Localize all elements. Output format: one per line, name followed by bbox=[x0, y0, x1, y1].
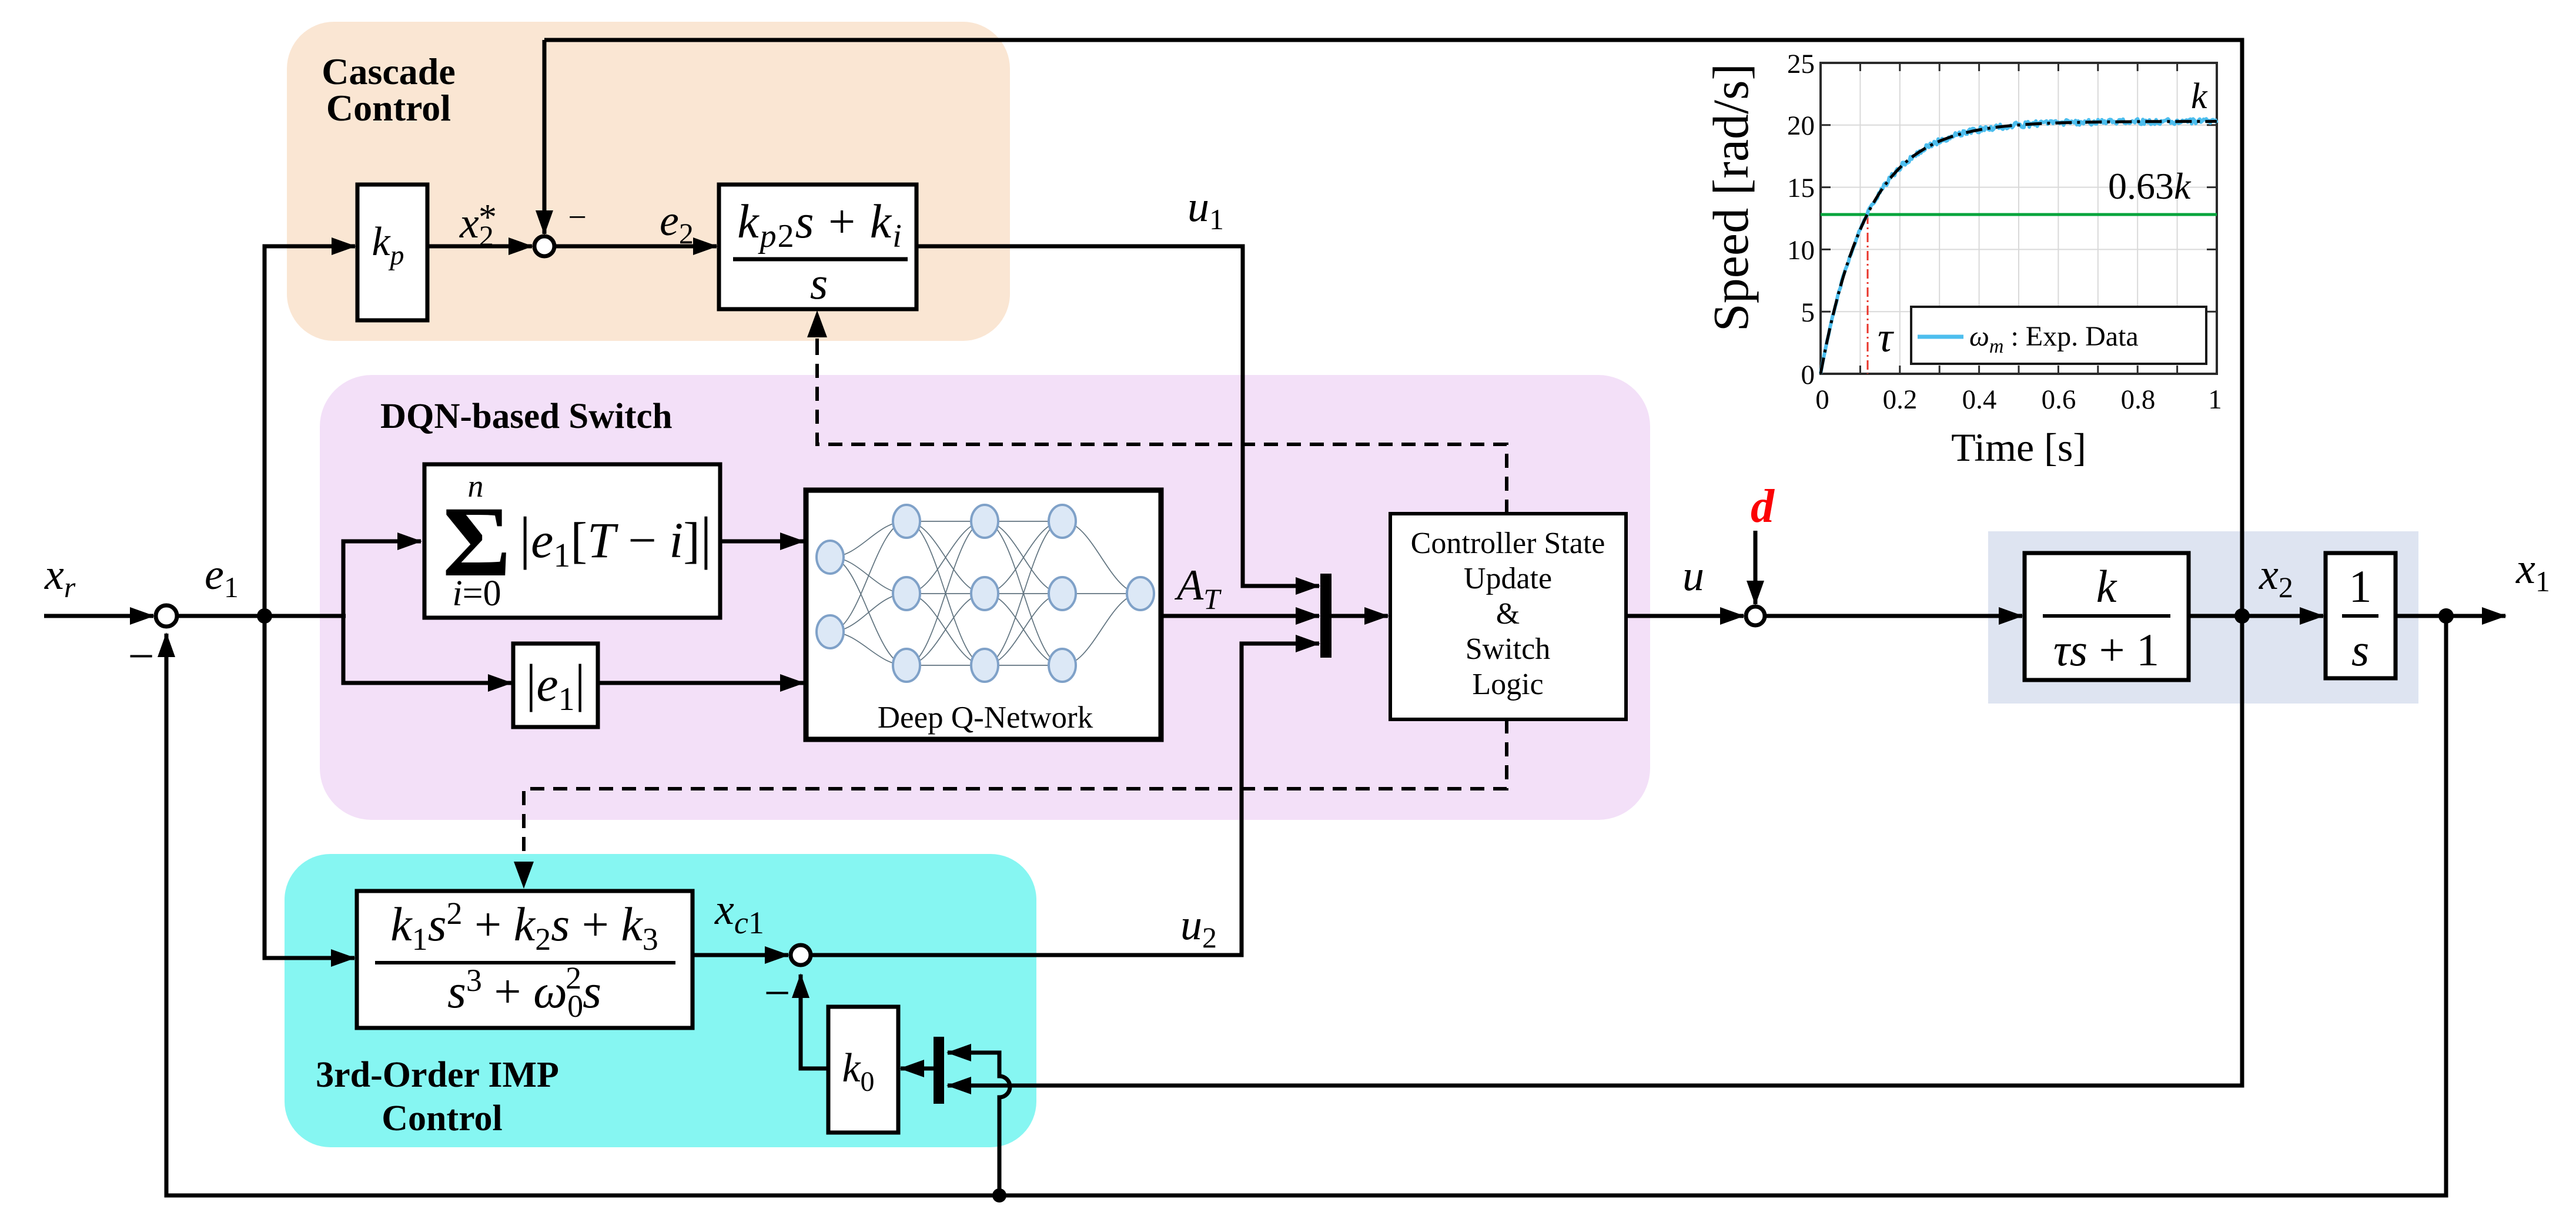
plot: frame bbox=[1821, 63, 2217, 374]
background region: Cascade Control bbox=[287, 22, 1010, 341]
wire: x1 feedback to main sum bbox=[166, 616, 2446, 1195]
svg-text:25: 25 bbox=[1787, 49, 1815, 79]
background region: 3rd-Order IMP Control bbox=[285, 854, 1036, 1147]
svg-text:k1s2 + k2s + k3: k1s2 + k2s + k3 bbox=[390, 896, 658, 957]
svg-text:Update: Update bbox=[1464, 562, 1552, 595]
svg-text:Speed [rad/s]: Speed [rad/s] bbox=[1702, 63, 1759, 331]
svg-text:|e1[T − i]|: |e1[T − i]| bbox=[519, 505, 712, 574]
svg-text:d: d bbox=[1751, 481, 1775, 532]
wire: d into sum bbox=[1754, 531, 1758, 604]
svg-text:*: * bbox=[479, 197, 497, 237]
background region: plant highlight bbox=[1988, 531, 2418, 704]
plot: cyan experimental curve bbox=[1821, 119, 2217, 374]
svg-text:Time [s]: Time [s] bbox=[1951, 425, 2086, 470]
svg-text:10: 10 bbox=[1787, 235, 1815, 266]
wire: AT output from DQN to mux bbox=[1161, 614, 1319, 618]
plot: red tau marker bbox=[1867, 215, 1869, 374]
block: kp gain bbox=[357, 185, 427, 320]
svg-text:s: s bbox=[810, 257, 828, 309]
svg-text:3rd-Order IMP: 3rd-Order IMP bbox=[316, 1055, 559, 1095]
svg-text:&: & bbox=[1496, 597, 1520, 631]
block: |e1| bbox=[513, 644, 598, 727]
node: x1 feedback tap dot bbox=[992, 1188, 1006, 1202]
wire: e2 to PI block bbox=[554, 244, 717, 249]
svg-text:−: − bbox=[568, 199, 587, 236]
summing junction: main (e1 = xr - x1) bbox=[156, 605, 177, 627]
svg-text:i=0: i=0 bbox=[452, 574, 501, 614]
block: k0 gain bbox=[828, 1007, 898, 1133]
wire: mux to controller box bbox=[1332, 614, 1388, 618]
svg-text:e1: e1 bbox=[205, 551, 239, 604]
svg-text:τ: τ bbox=[1878, 314, 1894, 361]
svg-text:0.2: 0.2 bbox=[1883, 384, 1918, 415]
plot: grid lines bbox=[1821, 63, 2217, 374]
svg-text:−: − bbox=[764, 967, 790, 1019]
svg-text:1: 1 bbox=[2349, 561, 2372, 612]
wire: k0 mux to k0 bbox=[901, 1067, 934, 1071]
svg-text:0: 0 bbox=[1801, 360, 1815, 390]
plot: y tick labels bbox=[1787, 49, 1815, 390]
wire: plant to integrator with x2 node bbox=[2189, 614, 2323, 618]
svg-text:u1: u1 bbox=[1187, 183, 1224, 236]
wire: sum-block to DQN bbox=[720, 540, 804, 544]
svg-text:k: k bbox=[2096, 561, 2117, 612]
svg-text:20: 20 bbox=[1787, 110, 1815, 141]
wire: x1 tap up to k0 mux with hop over x2 line bbox=[948, 1053, 1010, 1195]
wire: sum to plant bbox=[1765, 614, 2022, 618]
svg-text:0.6: 0.6 bbox=[2042, 384, 2076, 415]
svg-text:u: u bbox=[1682, 552, 1704, 600]
block: integrator 1/s bbox=[2326, 553, 2396, 678]
plot: legend box bbox=[1911, 307, 2206, 364]
svg-text:Controller State: Controller State bbox=[1411, 527, 1605, 560]
wire: xc1 to IMP sum bbox=[692, 953, 788, 957]
block: plant k/(tau s + 1) bbox=[2025, 553, 2189, 680]
plot: white panel bbox=[1821, 63, 2217, 374]
wire: kp to cascade sum bbox=[427, 244, 532, 249]
svg-text:0.8: 0.8 bbox=[2121, 384, 2156, 415]
plot: black dash-dot fit bbox=[1821, 122, 2217, 374]
svg-text:5: 5 bbox=[1801, 297, 1815, 328]
wire: u from controller to disturbance sum bbox=[1626, 614, 1744, 618]
svg-text:0: 0 bbox=[1815, 384, 1829, 415]
block: Controller State Update & Switch Logic bbox=[1390, 514, 1626, 719]
svg-text:Cascade: Cascade bbox=[322, 51, 456, 92]
summing junction: cascade (e2) bbox=[534, 236, 554, 256]
svg-text:Deep Q-Network: Deep Q-Network bbox=[878, 701, 1093, 735]
block: sum of |e1[T-i]| bbox=[424, 464, 720, 618]
wire: e1 branch to sum-block and abs-block bbox=[343, 541, 504, 683]
svg-text:Control: Control bbox=[382, 1098, 503, 1138]
wire: xr input bbox=[44, 614, 153, 618]
node: x2 junction dot bbox=[2234, 608, 2250, 624]
mux: k0 input selector bar bbox=[934, 1037, 944, 1104]
block: IMP controller (k1 s^2 + k2 s + k3)/(s^3 + w0^2 s) bbox=[357, 891, 692, 1028]
summing junction: disturbance bbox=[1746, 607, 1765, 625]
dashed wire: controller to PI (switch signal) bbox=[817, 339, 1507, 514]
svg-text:DQN-based Switch: DQN-based Switch bbox=[380, 397, 673, 436]
background region: DQN-based Switch bbox=[320, 375, 1650, 820]
summing junction: IMP (xc1 - k0 fb) bbox=[791, 945, 811, 965]
svg-text:Logic: Logic bbox=[1472, 668, 1543, 701]
wire: e1 from sum to branch bbox=[177, 614, 346, 618]
svg-text:0.4: 0.4 bbox=[1962, 384, 1997, 415]
block: PI controller (kp2 s + ki)/s bbox=[719, 185, 916, 309]
wire: abs-block to DQN bbox=[598, 681, 804, 685]
svg-text:1: 1 bbox=[2208, 384, 2222, 415]
wire: x2 feedback into cascade sum (top line) bbox=[544, 40, 2242, 1086]
wire: u2 from IMP sum to mux bbox=[811, 644, 1311, 955]
node: e1 junction dot bbox=[257, 608, 272, 624]
wire: x1 output bbox=[2396, 614, 2505, 618]
svg-text:|e1|: |e1| bbox=[526, 654, 585, 718]
block: Deep Q-Network bbox=[806, 490, 1161, 739]
dashed wire: controller to IMP (switch signal) bbox=[524, 719, 1507, 859]
mux: controller input selector bar bbox=[1320, 574, 1332, 658]
plot: x tick labels bbox=[1815, 384, 2222, 415]
plot: green 0.63k line bbox=[1821, 213, 2217, 216]
svg-text:xr: xr bbox=[44, 551, 76, 604]
wire: e1 vertical trunk to cascade and IMP bbox=[265, 246, 355, 958]
wire: u1 from PI to controller mux bbox=[916, 246, 1311, 586]
svg-text:x1: x1 bbox=[2515, 545, 2550, 598]
wire: k0 output to IMP sum bbox=[801, 976, 828, 1068]
svg-text:τs + 1: τs + 1 bbox=[2053, 624, 2159, 675]
svg-text:u2: u2 bbox=[1180, 901, 1217, 954]
svg-text:k: k bbox=[2191, 76, 2208, 116]
node: x1 junction dot bbox=[2438, 608, 2454, 624]
svg-text:Control: Control bbox=[326, 87, 451, 129]
svg-text:15: 15 bbox=[1787, 173, 1815, 203]
svg-text:s: s bbox=[2351, 624, 2369, 675]
svg-text:Switch: Switch bbox=[1466, 632, 1550, 666]
svg-text:−: − bbox=[128, 631, 154, 682]
svg-text:0.63k: 0.63k bbox=[2108, 165, 2192, 207]
